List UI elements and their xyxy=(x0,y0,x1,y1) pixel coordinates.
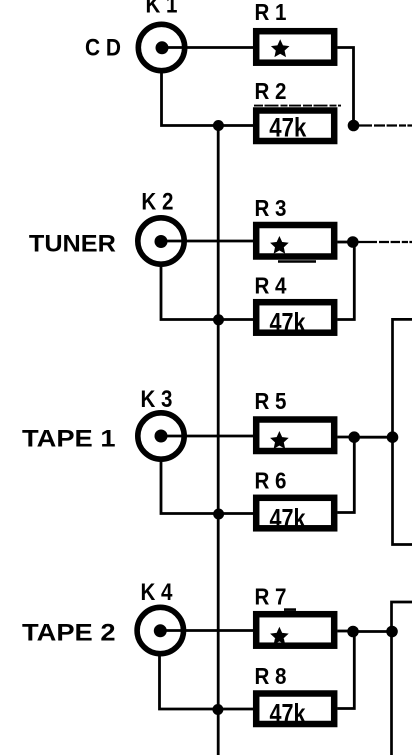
node output junction 4 xyxy=(347,626,359,638)
node bus junction 2 xyxy=(213,314,224,325)
wire R6 right riser up xyxy=(338,437,355,512)
connector K3 xyxy=(138,413,184,459)
wire R8 right riser up xyxy=(338,632,355,709)
connector K1 xyxy=(138,24,184,70)
wire output 4 to amp box 2 xyxy=(353,630,392,633)
svg-text:K 2: K 2 xyxy=(141,189,173,216)
svg-text:R 2: R 2 xyxy=(255,78,287,104)
wire K1 shield drop to R2 row xyxy=(162,70,254,126)
svg-text:47k: 47k xyxy=(269,113,307,143)
svg-text:C D: C D xyxy=(85,35,121,62)
resistor R5 xyxy=(256,420,334,452)
scan artifact above R7 xyxy=(284,608,296,611)
resistor R4 xyxy=(256,302,334,333)
resistor R3 xyxy=(256,225,334,257)
resistor R2 xyxy=(256,111,334,142)
wire K3 pin to R5 xyxy=(161,435,253,438)
svg-text:47k: 47k xyxy=(270,504,307,534)
resistor R7 xyxy=(256,614,334,646)
wire K4 pin to R7 xyxy=(160,629,253,632)
svg-text:K 4: K 4 xyxy=(141,579,174,606)
svg-text:R 4: R 4 xyxy=(255,273,287,299)
wire K1 pin to R1 xyxy=(162,46,253,49)
wire K4 shield drop to R8 row xyxy=(160,653,254,709)
scan artifact under R3 xyxy=(278,260,316,262)
svg-text:K 3: K 3 xyxy=(141,386,173,413)
svg-text:R 8: R 8 xyxy=(255,663,287,689)
amp block 1 (partial box at right) xyxy=(393,319,412,544)
value star R7 xyxy=(273,629,287,642)
node output junction 2 xyxy=(347,236,359,248)
node output junction 1 xyxy=(348,120,360,132)
svg-text:47k: 47k xyxy=(270,699,307,729)
node bus junction 1 xyxy=(213,120,224,131)
wire R3 right stub xyxy=(338,241,353,244)
svg-text:47k: 47k xyxy=(270,308,307,338)
svg-text:TAPE 2: TAPE 2 xyxy=(22,620,116,647)
wire R1 right riser down xyxy=(338,48,354,126)
wire R7 right stub xyxy=(338,630,354,633)
resistor R6 xyxy=(256,498,334,529)
svg-text:R 7: R 7 xyxy=(255,584,287,610)
wire K2 shield drop to R4 row xyxy=(161,264,253,320)
resistor R1 xyxy=(256,31,334,63)
svg-text:K 1: K 1 xyxy=(146,0,178,19)
svg-text:TUNER: TUNER xyxy=(29,231,116,258)
wire output 3 to amp box xyxy=(354,436,392,439)
wire R5 right stub xyxy=(338,436,355,439)
wire vertical bus xyxy=(217,126,220,755)
wire output 1 to right edge xyxy=(354,124,412,126)
wire K3 shield drop to R6 row xyxy=(161,459,253,514)
svg-text:R 1: R 1 xyxy=(255,0,287,25)
value star R3 xyxy=(273,239,287,252)
node amp box junction 3 xyxy=(387,431,399,443)
node bus junction 4 xyxy=(212,704,223,715)
value star R1 xyxy=(273,42,287,55)
wire output 2 to right edge xyxy=(353,241,412,243)
wire K2 pin to R3 xyxy=(161,240,253,243)
svg-text:R 3: R 3 xyxy=(255,195,287,221)
scan artifact line above R2 xyxy=(254,105,341,107)
connector K4 xyxy=(137,607,183,653)
connector K2 xyxy=(138,218,184,264)
amp block 2 (partial box at right) xyxy=(392,602,412,755)
svg-text:TAPE 1: TAPE 1 xyxy=(22,426,116,453)
resistor R8 xyxy=(256,694,334,725)
svg-text:R 6: R 6 xyxy=(255,468,287,494)
node output junction 3 xyxy=(348,431,360,443)
node bus junction 3 xyxy=(213,509,224,520)
svg-text:R 5: R 5 xyxy=(255,388,287,414)
node amp box junction 4 xyxy=(386,626,398,638)
value star R5 xyxy=(273,434,287,447)
wire R4 right riser up xyxy=(338,242,355,320)
